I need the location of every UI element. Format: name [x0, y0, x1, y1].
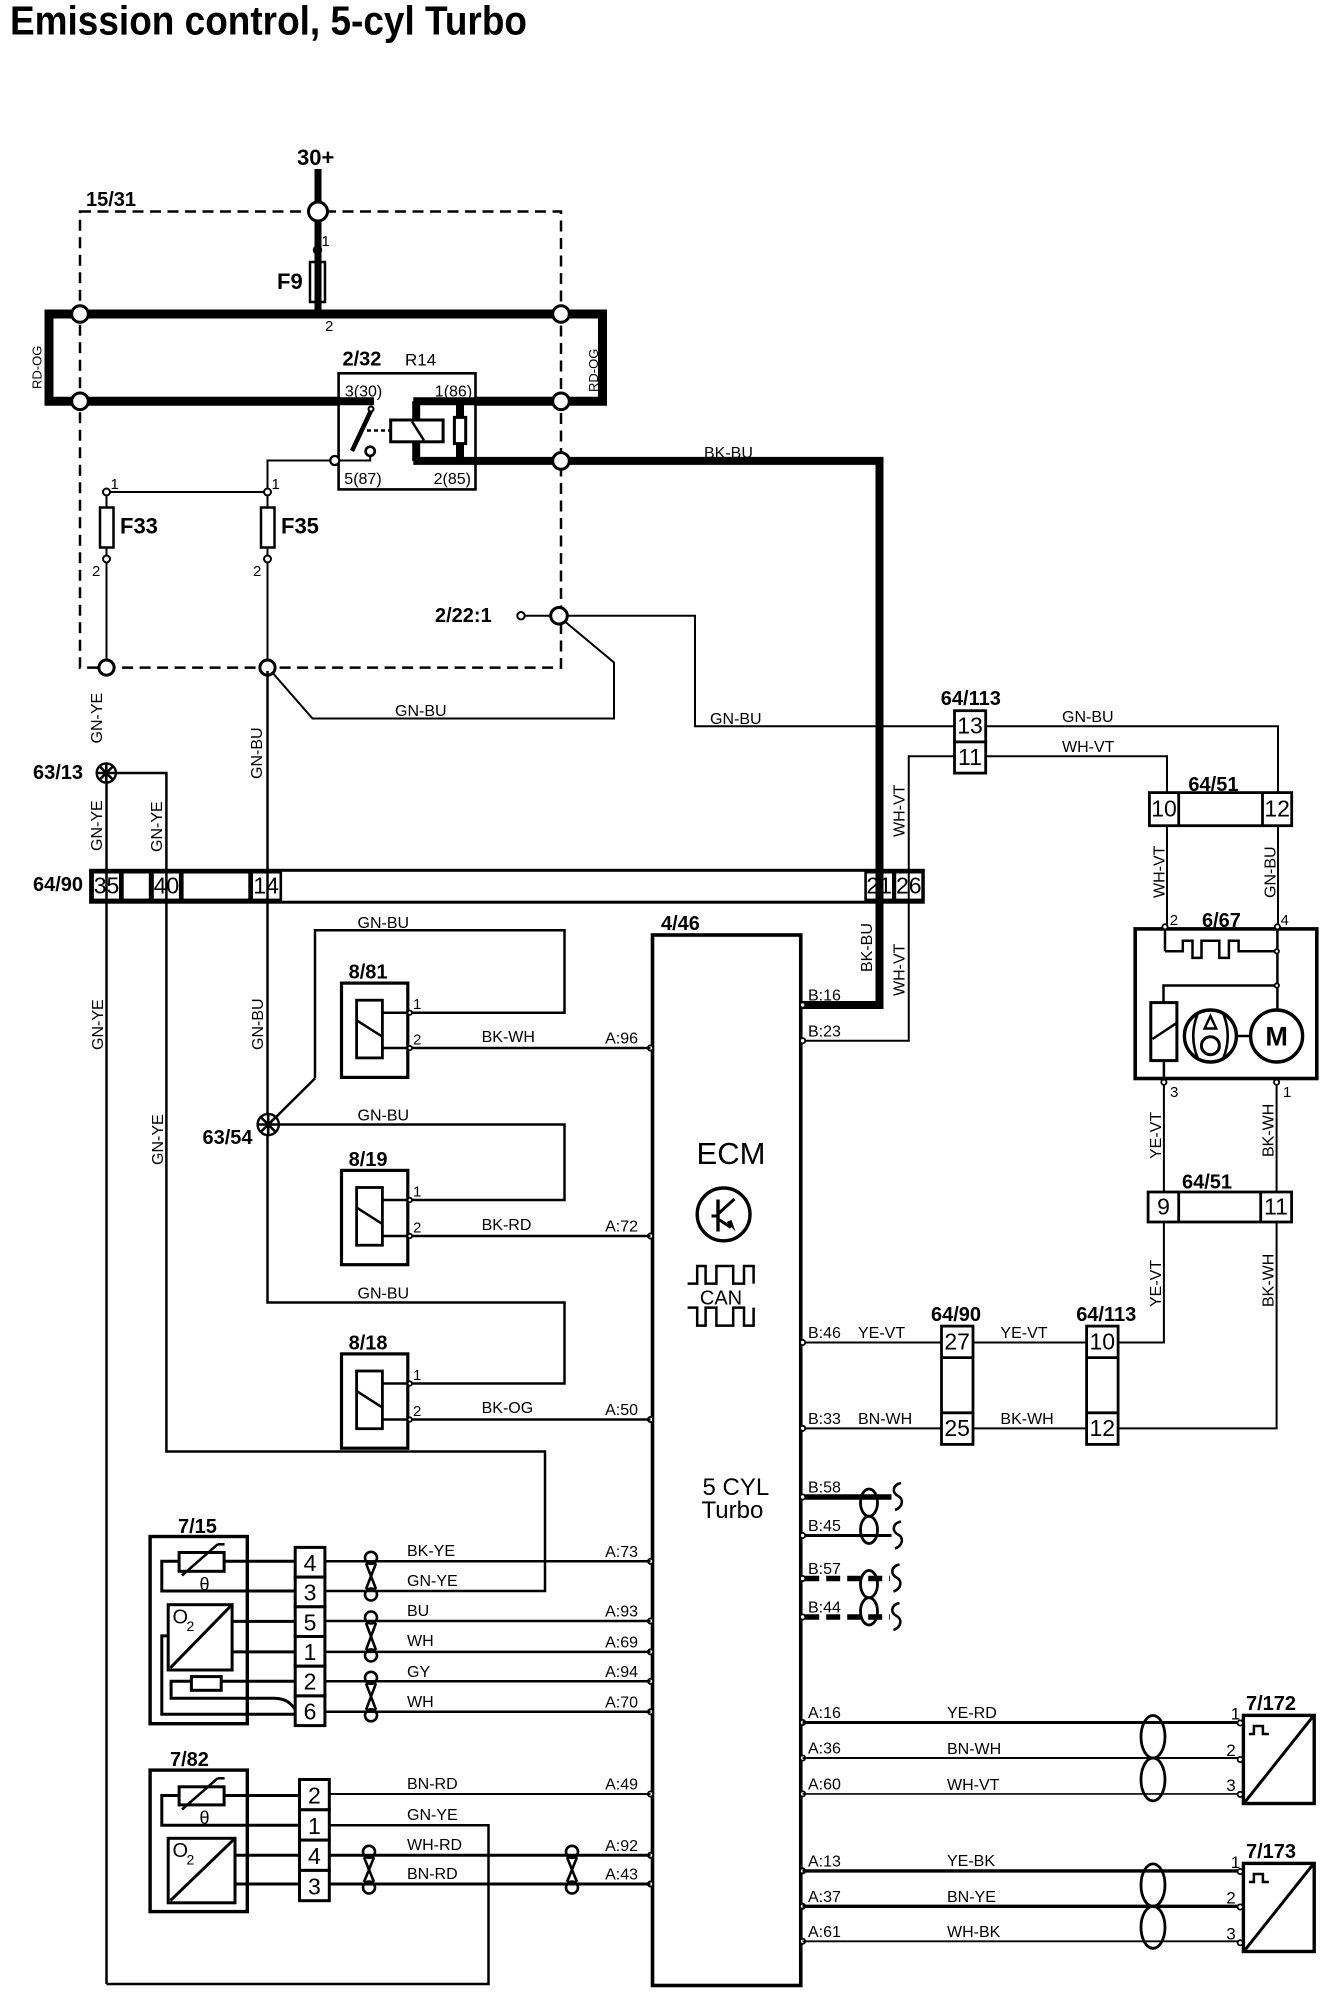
6/67 junction circle 1 — [1275, 949, 1279, 953]
ECM pin B:44 — [800, 1614, 805, 1619]
ECM pin B:33 — [800, 1426, 805, 1431]
relay 2/32 pin 3(30) stub — [335, 397, 374, 405]
6/67 junction circle 2 — [1275, 983, 1279, 987]
svg-text:2: 2 — [413, 1403, 421, 1420]
svg-text:3: 3 — [1226, 1776, 1235, 1795]
ECM CAN upper waveform — [688, 1266, 754, 1284]
svg-text:WH-VT: WH-VT — [892, 943, 909, 996]
wire BK-RD 8/19 to A:72 — [412, 1235, 651, 1238]
wire BK-WH 8/81 to A:96 — [412, 1047, 651, 1050]
svg-text:BK-WH: BK-WH — [1261, 1104, 1278, 1157]
svg-text:9: 9 — [1157, 1194, 1170, 1220]
wire WH-RD 7/82:4 to A:92 — [329, 1854, 650, 1857]
svg-text:A:13: A:13 — [808, 1853, 841, 1870]
svg-text:GY: GY — [407, 1664, 430, 1681]
svg-text:30+: 30+ — [297, 145, 334, 170]
wire WH-BK A:61 to 7/173 — [803, 1940, 1241, 1942]
svg-text:WH: WH — [407, 1633, 434, 1650]
svg-text:A:94: A:94 — [605, 1664, 638, 1681]
ECM pin B:45 — [800, 1533, 805, 1538]
svg-text:2: 2 — [413, 1032, 421, 1049]
ECM pin B:23 — [800, 1038, 805, 1043]
relay 2/32 box — [339, 373, 476, 489]
svg-text:2/22:1: 2/22:1 — [435, 605, 492, 627]
ECM pin A:93 — [648, 1618, 653, 1623]
svg-text:GN-YE: GN-YE — [407, 1807, 458, 1824]
connector 64/113 pin 11 cell — [955, 742, 986, 773]
wire GN-BU through pin 14 — [266, 870, 269, 902]
junction circle 30+ on dashed box — [309, 202, 328, 221]
fuse F33 body — [100, 508, 114, 548]
svg-text:BK-WH: BK-WH — [1261, 1254, 1278, 1307]
relay 2/32 coil top feed — [412, 401, 420, 420]
wire BN-RD 7/82:2 to A:49 — [329, 1793, 650, 1795]
svg-text:1: 1 — [1283, 1084, 1291, 1101]
pump unit 6/67 box — [1135, 929, 1317, 1079]
svg-text:B:45: B:45 — [808, 1518, 841, 1535]
svg-text:A:37: A:37 — [808, 1889, 841, 1906]
svg-text:Emission control, 5-cyl Turbo: Emission control, 5-cyl Turbo — [10, 0, 527, 44]
7/15 thermistor — [179, 1553, 224, 1572]
svg-text:12: 12 — [1090, 1415, 1116, 1441]
connector 64/113 pin 10 divider — [1087, 1356, 1119, 1359]
junction circle left bottom — [72, 393, 89, 410]
svg-text:GN-YE: GN-YE — [149, 801, 166, 852]
relay 8/81 box — [342, 983, 408, 1077]
relay 8/81 element — [357, 1000, 383, 1058]
ECM pin A:36 — [800, 1755, 805, 1760]
svg-text:2: 2 — [304, 1669, 317, 1695]
svg-text:12: 12 — [1264, 796, 1290, 822]
wire BK-WH 64/51:11 down — [1118, 1222, 1277, 1428]
wire BN-WH A:36 to 7/172 — [803, 1757, 1241, 1759]
wire YE-VT 6/67 pin3 to 64/51:9 — [1163, 1085, 1165, 1192]
wire RD-OG right lower bus — [476, 397, 608, 406]
svg-text:GN-BU: GN-BU — [358, 1108, 410, 1125]
svg-text:8/18: 8/18 — [349, 1332, 388, 1354]
svg-text:F9: F9 — [277, 269, 303, 294]
fuse F35 pin 1 circle — [264, 489, 271, 496]
svg-text:2: 2 — [1226, 1741, 1235, 1760]
wire GN-BU loop 8/81 — [315, 930, 565, 1078]
wire GN-BU loop 8/18 — [268, 1135, 565, 1383]
wire WH-VT from pin 11 to 64/51:10 — [986, 756, 1167, 792]
wire BU 7/15:5 to A:93 — [325, 1620, 651, 1623]
svg-text:WH: WH — [407, 1694, 434, 1711]
relay 2/32 switch arm — [352, 408, 373, 452]
wire BK-YE 7/15:4 to A:73 — [325, 1560, 651, 1563]
svg-text:7/172: 7/172 — [1246, 1693, 1296, 1715]
wire GN-BU 64/51 to 6/67 pin 4 — [1277, 826, 1279, 927]
squiggle B:45 — [894, 1522, 902, 1549]
svg-text:25: 25 — [944, 1415, 970, 1441]
svg-text:YE-VT: YE-VT — [1148, 1112, 1165, 1159]
6/67 motor circle — [1251, 1010, 1303, 1062]
svg-text:1: 1 — [413, 1184, 421, 1201]
6/67 pump small circle — [1201, 1037, 1219, 1055]
64/90 pin 26 cell — [895, 872, 923, 900]
6/67 pump triangle — [1205, 1016, 1217, 1029]
relay 2/32 resistor bottom feed — [456, 444, 464, 461]
7/15 O2 reference loop — [162, 1636, 295, 1714]
svg-text:F35: F35 — [281, 514, 319, 539]
svg-text:13: 13 — [957, 713, 983, 739]
6/67 square wave element — [1165, 941, 1275, 958]
twist 7/173 wires — [1141, 1864, 1165, 1906]
svg-text:A:70: A:70 — [605, 1694, 638, 1711]
svg-text:63/54: 63/54 — [203, 1127, 254, 1149]
6/67 pin 4 circle — [1275, 924, 1280, 929]
relay 2/32 switch pivot — [369, 407, 374, 412]
ECM pin A:72 — [648, 1233, 653, 1238]
ECM pin A:69 — [648, 1649, 653, 1654]
svg-text:1: 1 — [413, 1367, 421, 1384]
svg-text:GN-BU: GN-BU — [710, 711, 762, 728]
svg-text:2: 2 — [325, 318, 333, 335]
connector 64/113 lower body — [1087, 1326, 1119, 1444]
svg-text:5: 5 — [304, 1609, 317, 1635]
svg-text:B:33: B:33 — [808, 1411, 841, 1428]
fuse box 15/31 (dashed outline) — [80, 212, 561, 668]
wire 1(86) bus — [413, 397, 606, 405]
svg-text:4: 4 — [1281, 912, 1289, 929]
wire BK-OG 8/18 to A:50 — [412, 1418, 651, 1421]
ECM pin A:60 — [800, 1791, 805, 1796]
ECM K symbol — [716, 1200, 719, 1232]
svg-text:YE-RD: YE-RD — [947, 1705, 997, 1722]
7/82 O2 element box — [168, 1838, 235, 1903]
wire WH 7/15:1 to A:69 — [325, 1651, 651, 1654]
svg-text:7/15: 7/15 — [178, 1516, 217, 1538]
ECM pin A:70 — [648, 1709, 653, 1714]
wire GN-YE through pin 35 — [105, 870, 108, 902]
junction circle right mid — [553, 393, 570, 410]
svg-text:GN-BU: GN-BU — [249, 727, 266, 779]
svg-text:BN-RD: BN-RD — [407, 1776, 458, 1793]
svg-text:B:57: B:57 — [808, 1561, 841, 1578]
svg-text:BU: BU — [407, 1603, 429, 1620]
ECM pin A:61 — [800, 1939, 805, 1944]
svg-text:10: 10 — [1090, 1329, 1116, 1355]
6/67 motor feed vertical — [1276, 929, 1279, 1010]
junction circle F35 leg — [260, 660, 275, 675]
7/173 diagonal — [1245, 1865, 1312, 1950]
svg-text:GN-BU: GN-BU — [358, 1286, 410, 1303]
relay 8/18 pin 2 wire — [382, 1418, 407, 1421]
squiggle B:57 — [892, 1565, 900, 1592]
relay 8/81 pin 1 wire — [382, 1011, 407, 1014]
wire BK-BU through pin 21 — [876, 868, 884, 904]
6/67 pump circle — [1184, 1010, 1236, 1062]
wire WH-VT 64/51 to 6/67 pin 2 — [1166, 826, 1168, 927]
svg-text:GN-YE: GN-YE — [150, 1114, 167, 1165]
svg-text:64/90: 64/90 — [33, 874, 83, 896]
relay 8/81 pin 2 wire — [382, 1047, 407, 1050]
svg-text:GN-BU: GN-BU — [358, 915, 410, 932]
svg-text:1: 1 — [1231, 1705, 1240, 1724]
wire 30+ feed — [315, 169, 322, 314]
twist B:58/B:45 — [861, 1489, 878, 1516]
connector 2/22:1 terminal circle — [517, 612, 524, 619]
ECM pin B:58 — [800, 1494, 805, 1499]
svg-text:M: M — [1265, 1022, 1288, 1052]
ECM pin A:94 — [648, 1679, 653, 1684]
svg-text:WH-VT: WH-VT — [892, 784, 909, 837]
svg-text:10: 10 — [1151, 796, 1177, 822]
svg-text:Turbo: Turbo — [702, 1497, 764, 1524]
connector 64/90 lower body — [942, 1326, 974, 1444]
svg-text:27: 27 — [944, 1329, 970, 1355]
svg-text:4/46: 4/46 — [661, 913, 700, 935]
wire GN-BU from pin 13 to 64/51:12 — [986, 726, 1278, 792]
svg-text:B:23: B:23 — [808, 1023, 841, 1040]
svg-text:64/90: 64/90 — [931, 1304, 981, 1326]
wire RD-OG left lower bus — [45, 397, 339, 406]
svg-text:A:49: A:49 — [605, 1777, 638, 1794]
svg-text:BN-WH: BN-WH — [947, 1741, 1001, 1758]
svg-text:64/113: 64/113 — [1076, 1304, 1136, 1326]
svg-text:BK-YE: BK-YE — [407, 1543, 455, 1560]
junction circle left top — [72, 306, 89, 323]
7/15 O2 element box — [168, 1605, 232, 1670]
svg-text:YE-VT: YE-VT — [1148, 1260, 1165, 1307]
junction circle right low — [553, 453, 570, 470]
svg-text:BK-RD: BK-RD — [482, 1217, 532, 1234]
squiggle B:44 — [892, 1603, 900, 1630]
fuse F35 pin 2 circle — [264, 556, 271, 563]
relay 2/32 contact to 5(87) wire — [335, 456, 370, 460]
7/15 connector cells — [295, 1547, 325, 1577]
ECM K-diagnostic circle — [697, 1188, 750, 1241]
svg-text:GN-YE: GN-YE — [89, 693, 106, 744]
svg-text:A:93: A:93 — [605, 1604, 638, 1621]
wire YE-VT 64/51:9 down — [1118, 1222, 1164, 1343]
relay 8/18 box — [342, 1354, 408, 1448]
fuse F33 wire — [106, 496, 108, 668]
7/82 O2 to pin 3 — [235, 1883, 300, 1886]
svg-text:B:44: B:44 — [808, 1600, 841, 1617]
connector 64/51 top — [1149, 793, 1291, 826]
ECM pin A:73 — [648, 1559, 653, 1564]
6/67 pin 1 circle — [1274, 1080, 1279, 1085]
6/67 pump left vane — [1193, 1013, 1198, 1059]
svg-text:RD-OG: RD-OG — [30, 346, 45, 389]
svg-text:2: 2 — [187, 1618, 195, 1634]
wire WH-VT A:60 to 7/172 — [803, 1793, 1241, 1795]
svg-text:2: 2 — [413, 1220, 421, 1237]
svg-text:4: 4 — [304, 1550, 317, 1576]
ECM CAN lower waveform — [688, 1308, 754, 1326]
svg-text:A:43: A:43 — [605, 1867, 638, 1884]
6/67 pin 2 circle — [1162, 924, 1167, 929]
svg-text:A:36: A:36 — [808, 1741, 841, 1758]
svg-text:ECM: ECM — [697, 1136, 766, 1171]
svg-text:11: 11 — [958, 744, 982, 770]
connector 64/90 pin 25 divider — [942, 1411, 974, 1414]
fuse F33 pin 2 circle — [103, 556, 110, 563]
7/15 thermistor to pin 4 — [224, 1560, 295, 1563]
wire RD-OG top bus — [49, 314, 603, 401]
wire B:16 horizontal — [803, 1001, 884, 1009]
ECM pin A:37 — [800, 1904, 805, 1909]
twist 7/82 pins 4-3 — [363, 1846, 375, 1858]
svg-text:A:72: A:72 — [605, 1219, 638, 1236]
connector 64/51 lower — [1148, 1192, 1292, 1222]
wire BN-YE A:37 to 7/173 — [803, 1905, 1241, 1908]
svg-text:YE-VT: YE-VT — [1000, 1325, 1047, 1342]
relay 8/18 element — [357, 1371, 383, 1429]
svg-text:3: 3 — [304, 1580, 317, 1606]
svg-text:11: 11 — [1264, 1194, 1288, 1220]
svg-text:BK-WH: BK-WH — [1000, 1411, 1053, 1428]
sensor 7/82 box — [150, 1770, 247, 1912]
junction 63/13 — [97, 763, 116, 782]
svg-text:2: 2 — [1170, 912, 1178, 929]
svg-text:4: 4 — [308, 1843, 321, 1869]
6/67 relay coil feed — [1164, 986, 1275, 1003]
ECM pin A:13 — [800, 1868, 805, 1873]
svg-text:5(87): 5(87) — [344, 471, 381, 488]
ECM pin A:50 — [648, 1417, 653, 1422]
64/90 empty cell — [122, 872, 150, 900]
7/15 heater element — [191, 1677, 221, 1691]
6/67 coil to pin 3 — [1163, 1061, 1166, 1079]
svg-text:A:92: A:92 — [605, 1838, 638, 1855]
64/90 pin 35 cell — [93, 872, 121, 900]
svg-text:15/31: 15/31 — [86, 189, 136, 211]
svg-text:WH-VT: WH-VT — [1152, 845, 1169, 898]
junction 63/54 — [258, 1114, 279, 1135]
64/90 wide empty cell — [182, 872, 249, 900]
svg-text:8/81: 8/81 — [349, 962, 388, 984]
svg-text:A:50: A:50 — [605, 1402, 638, 1419]
fuse F9 pin 1 dot — [314, 246, 322, 254]
svg-text:WH-BK: WH-BK — [947, 1924, 1001, 1941]
svg-text:A:61: A:61 — [808, 1924, 841, 1941]
fuse F33 pin 1 circle — [103, 489, 110, 496]
relay 2/32 pin 5(87) circle — [330, 456, 339, 465]
relay 2/32 resistor — [454, 417, 465, 443]
svg-text:BK-OG: BK-OG — [482, 1400, 534, 1417]
relay 2/32 coil bottom feed — [412, 442, 420, 461]
svg-text:1: 1 — [413, 996, 421, 1013]
ECM pin A:96 — [648, 1045, 653, 1050]
relay 8/18 pin 1 wire — [382, 1382, 407, 1385]
wire GY 7/15:2 to A:94 — [325, 1680, 651, 1683]
svg-text:1: 1 — [308, 1813, 321, 1839]
7/15 O2 to pin 5 — [232, 1620, 295, 1623]
connector 64/113 pin 12 divider — [1087, 1411, 1119, 1414]
svg-text:3: 3 — [1226, 1924, 1235, 1943]
7/82 O2 to pin 4 — [235, 1854, 300, 1857]
wire fuse link F33-F35 — [107, 491, 268, 493]
relay 8/19 pin 1 wire — [382, 1199, 407, 1202]
svg-text:6/67: 6/67 — [1202, 910, 1241, 932]
6/67 internal signal wire — [1164, 929, 1167, 951]
svg-text:YE-BK: YE-BK — [947, 1853, 995, 1870]
7/15 O2 to pin 1 — [232, 1650, 295, 1653]
6/67 pump right vane — [1223, 1013, 1228, 1059]
svg-text:R14: R14 — [405, 351, 436, 370]
wire YE-VT 27 to 10 — [973, 1342, 1087, 1344]
svg-text:WH-VT: WH-VT — [947, 1777, 1000, 1794]
svg-text:GN-YE: GN-YE — [407, 1573, 458, 1590]
svg-text:GN-YE: GN-YE — [90, 999, 107, 1050]
svg-text:BN-WH: BN-WH — [858, 1411, 912, 1428]
twist 7/15 pins 4-3 — [365, 1552, 377, 1564]
wire WH-VT through pin 26 — [803, 756, 955, 1040]
svg-text:GN-BU: GN-BU — [395, 703, 447, 720]
svg-text:B:58: B:58 — [808, 1480, 841, 1497]
svg-text:1: 1 — [322, 233, 330, 250]
connector 64/90 pin 27 divider — [942, 1356, 974, 1359]
relay 8/19 pin 2 wire — [382, 1235, 407, 1238]
svg-text:WH-VT: WH-VT — [1062, 739, 1115, 756]
wire YE-BK A:13 to 7/173 — [803, 1869, 1241, 1872]
svg-text:2(85): 2(85) — [434, 471, 471, 488]
twist 7/82 wires near ECM — [566, 1846, 578, 1858]
svg-text:2: 2 — [92, 563, 100, 580]
wire BK-BU vertical — [876, 461, 884, 1005]
svg-text:7/82: 7/82 — [170, 1749, 209, 1771]
svg-text:2: 2 — [187, 1852, 195, 1868]
svg-text:A:73: A:73 — [605, 1544, 638, 1561]
wire BN-WH B:33 to 64/90:25 — [803, 1427, 942, 1429]
sensor 7/173 box — [1243, 1863, 1314, 1951]
svg-text:A:96: A:96 — [605, 1031, 638, 1048]
svg-text:1: 1 — [111, 476, 119, 493]
7/82 thermistor left loop — [162, 1796, 300, 1826]
svg-text:3: 3 — [308, 1873, 321, 1899]
relay 8/19 element — [357, 1188, 383, 1246]
wire 2(85) / BK-BU horizontal — [413, 457, 883, 465]
wire 5(87) to fuses — [268, 461, 331, 489]
64/90 pin 21 cell — [866, 872, 894, 900]
relay 2/32 mechanical link (dashed) — [367, 429, 391, 432]
svg-text:2: 2 — [308, 1783, 321, 1809]
fuse F9 body — [310, 262, 325, 302]
wire BK-WH 6/67 pin1 to 64/51:11 — [1276, 1085, 1278, 1192]
connector 64/113 pin 13 cell — [955, 711, 986, 742]
svg-text:BN-YE: BN-YE — [947, 1889, 996, 1906]
svg-text:6: 6 — [304, 1698, 317, 1724]
7/82 thermistor — [179, 1787, 224, 1805]
6/67 relay coil box — [1151, 1003, 1177, 1061]
svg-text:3: 3 — [1170, 1084, 1178, 1101]
ECM pin A:43 — [648, 1881, 653, 1886]
wire GN-YE through pin 40 down to 7/15 leg — [166, 870, 545, 1591]
svg-text:8/19: 8/19 — [349, 1149, 388, 1171]
svg-text:1: 1 — [1231, 1853, 1240, 1872]
relay 2/32 coil diagonal — [412, 422, 424, 441]
twist 7/15 pins 2-6 — [365, 1672, 377, 1684]
svg-text:2: 2 — [1226, 1889, 1235, 1908]
wire GN-BU diagonal from junction — [273, 622, 614, 719]
wire 2/22:1 to junction — [525, 615, 551, 617]
wire GN-YE 7/82:1 loop — [107, 1825, 489, 1984]
wire GN-BU junction to 64/113:13 — [567, 616, 954, 727]
6/67 pump-motor link — [1236, 1035, 1250, 1038]
wire B:45 stub — [805, 1534, 891, 1537]
wire BK-WH 25 to 12 — [973, 1427, 1087, 1429]
7/172 pin circles — [1238, 1720, 1243, 1725]
svg-text:63/13: 63/13 — [33, 762, 83, 784]
svg-text:BN-RD: BN-RD — [407, 1866, 458, 1883]
fuse F35 wire — [267, 496, 269, 668]
sensor 7/172 box — [1243, 1715, 1314, 1803]
wire GN-BU loop 8/19 — [279, 1125, 565, 1201]
svg-text:1: 1 — [304, 1639, 317, 1665]
